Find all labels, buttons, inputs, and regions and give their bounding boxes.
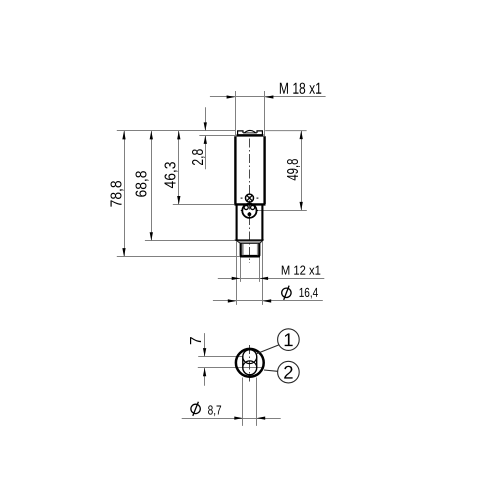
svg-text:1: 1 bbox=[283, 329, 293, 350]
svg-text:49,8: 49,8 bbox=[285, 159, 302, 181]
svg-text:8,7: 8,7 bbox=[208, 403, 222, 418]
svg-text:M 12 x1: M 12 x1 bbox=[281, 263, 321, 278]
svg-text:68,8: 68,8 bbox=[134, 171, 151, 198]
svg-text:M 18 x1: M 18 x1 bbox=[279, 81, 322, 98]
svg-text:7: 7 bbox=[188, 336, 205, 345]
svg-text:2: 2 bbox=[283, 362, 293, 383]
svg-text:78,8: 78,8 bbox=[109, 180, 126, 207]
svg-text:46,3: 46,3 bbox=[163, 162, 180, 189]
svg-text:2,8: 2,8 bbox=[190, 149, 207, 166]
svg-text:16,4: 16,4 bbox=[299, 285, 319, 300]
